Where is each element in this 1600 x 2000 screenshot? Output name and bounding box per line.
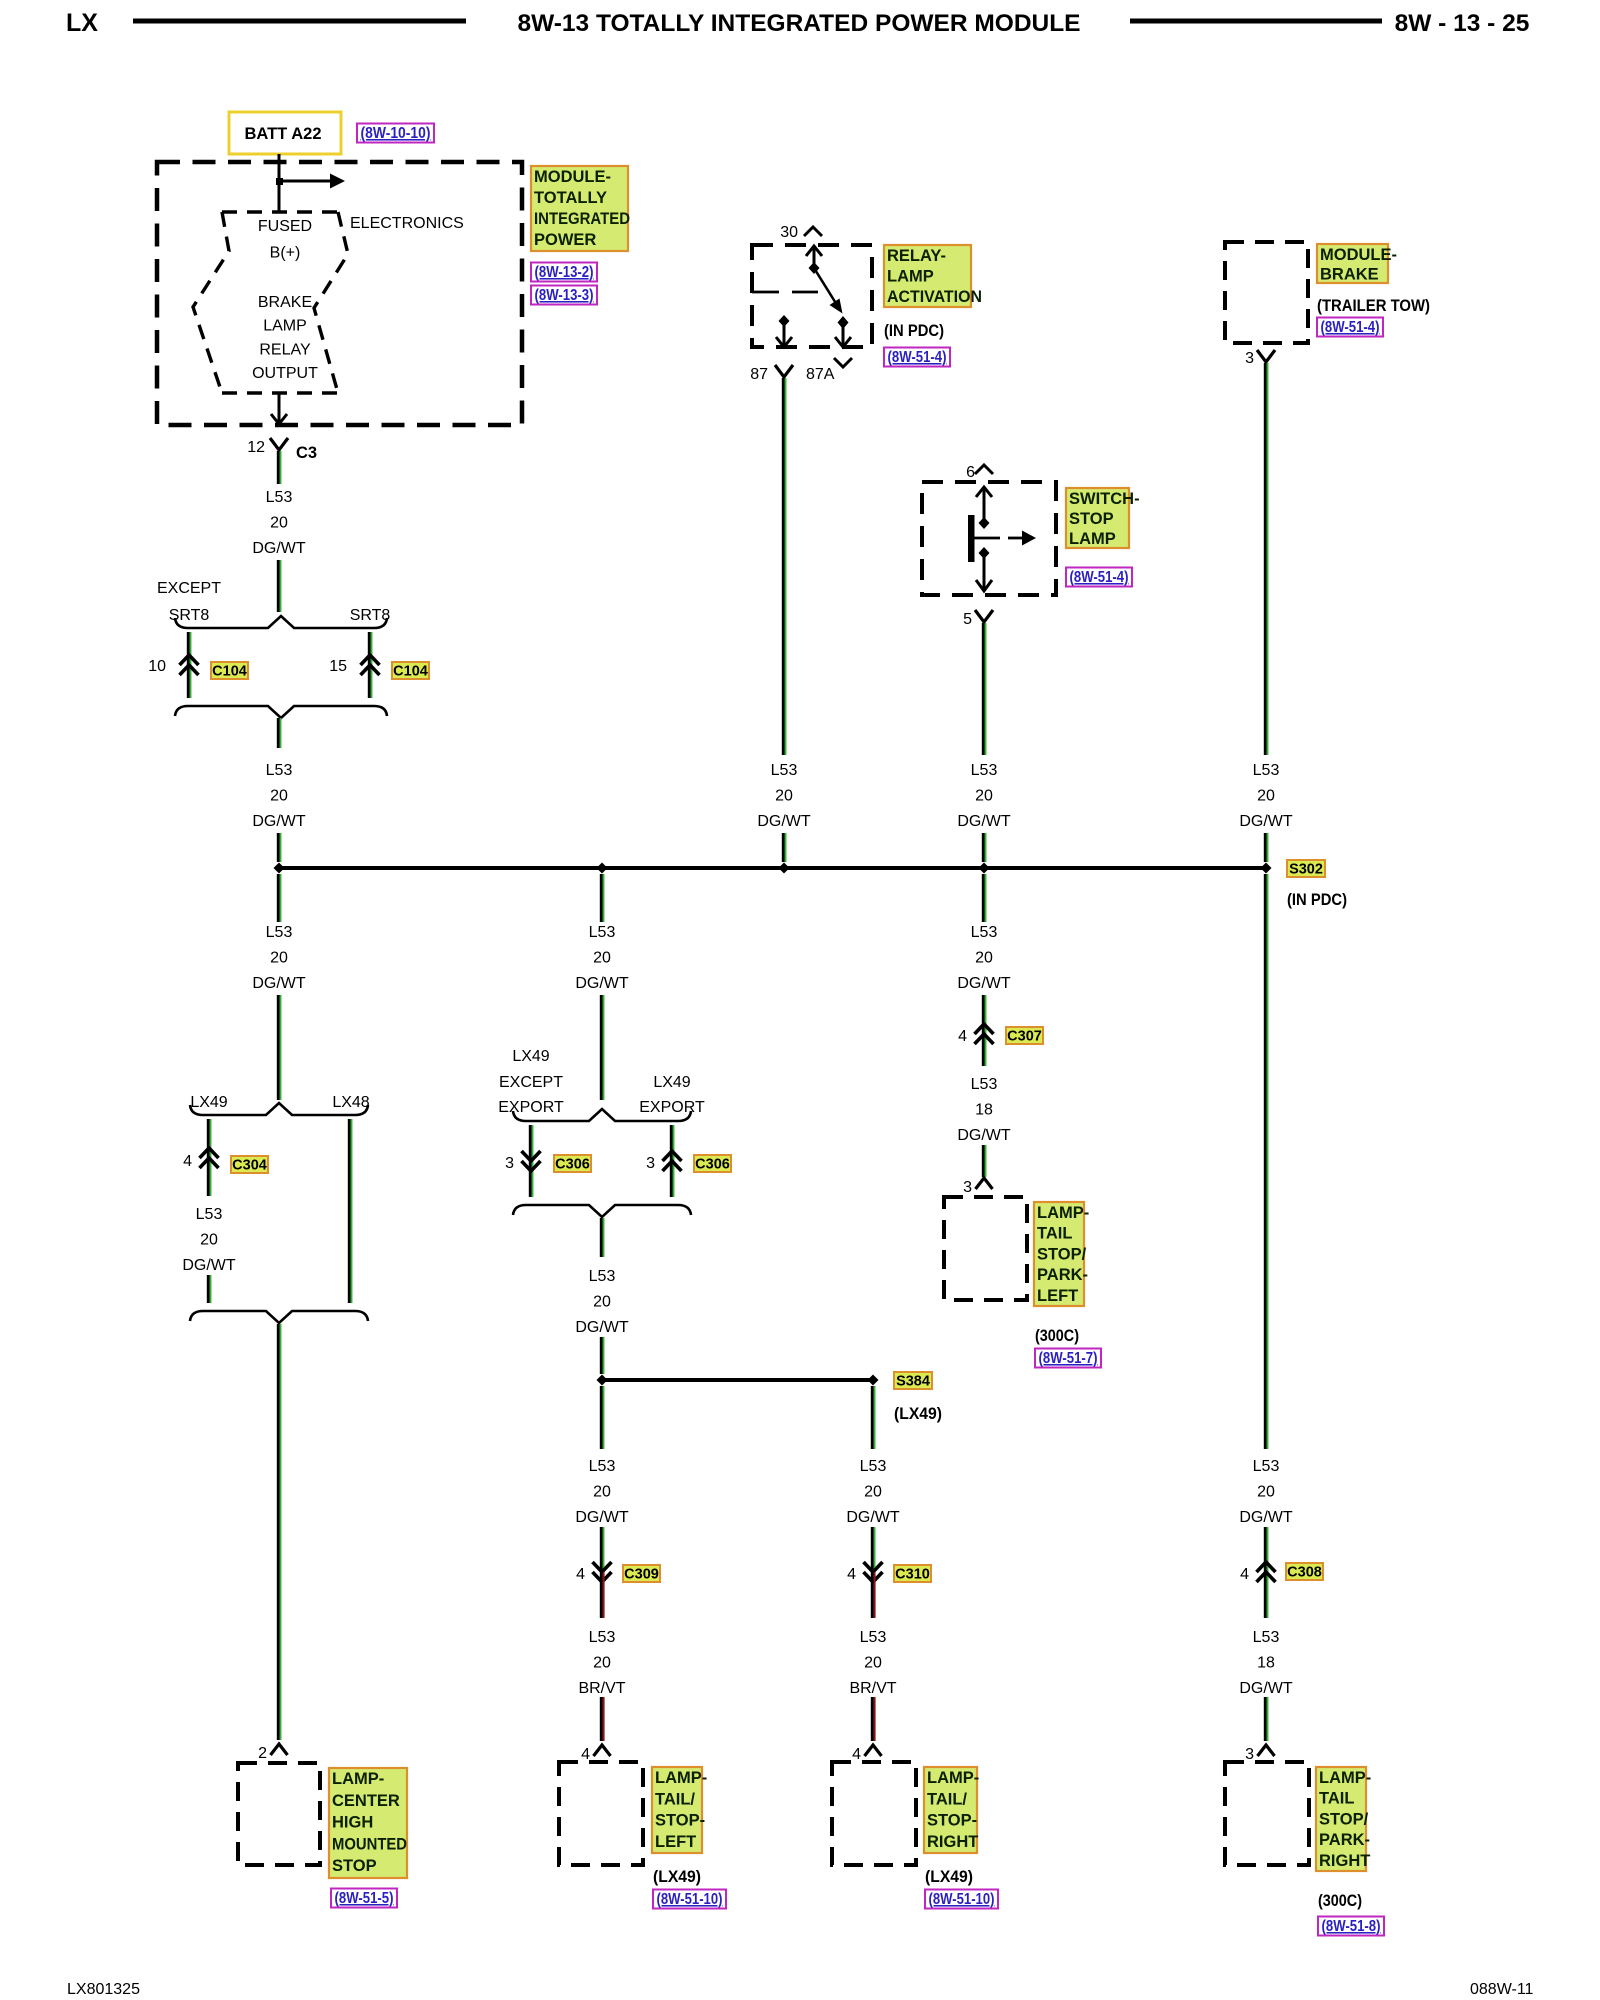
svg-text:LAMP-: LAMP-: [332, 1770, 384, 1788]
svg-text:L53: L53: [971, 1076, 998, 1093]
svg-text:OUTPUT: OUTPUT: [252, 365, 318, 382]
svg-text:L53: L53: [589, 1629, 616, 1646]
svg-text:BATT A22: BATT A22: [244, 125, 321, 143]
svg-text:(8W-51-4): (8W-51-4): [888, 349, 947, 366]
svg-text:LAMP: LAMP: [1069, 530, 1116, 548]
label L53 20 DG/WT (column B): [575, 924, 629, 992]
label L53 20 BR/VT (left): [578, 1629, 625, 1697]
svg-text:6: 6: [966, 464, 975, 481]
svg-text:SRT8: SRT8: [350, 607, 391, 624]
relay pin 30 terminal: [780, 224, 798, 241]
text FUSED B(+): [258, 218, 312, 262]
TIPM internal B(+) distribution arrow: [276, 174, 345, 189]
switch S1 STOP LAMP dashed outline: [922, 482, 1056, 595]
connector C308 pin 4 symbol: [1257, 1562, 1276, 1582]
svg-text:20: 20: [864, 1483, 882, 1500]
label MODULE-BRAKE: [1317, 244, 1397, 284]
svg-text:(IN PDC): (IN PDC): [884, 322, 944, 340]
wire L53 to center high mounted stop lamp: [278, 1324, 280, 1740]
svg-text:LAMP: LAMP: [887, 268, 934, 286]
connector C304 pin 4 symbol: [200, 1148, 219, 1168]
svg-text:(8W-51-5): (8W-51-5): [335, 1890, 394, 1907]
wire L53 into LX49/LX48 split: [278, 995, 280, 1100]
svg-text:DG/WT: DG/WT: [1239, 813, 1293, 830]
label SWITCH-STOP LAMP: [1066, 488, 1140, 548]
junction at S384 left: [597, 1375, 608, 1386]
svg-text:LAMP: LAMP: [263, 318, 307, 335]
svg-text:RELAY-: RELAY-: [887, 247, 946, 265]
label L53 20 DG/WT (above C309): [575, 1458, 629, 1526]
svg-text:TOTALLY: TOTALLY: [534, 189, 607, 207]
svg-text:CENTER: CENTER: [332, 1792, 400, 1810]
relay internal contact: common arm with up arrow: [806, 246, 822, 274]
wire L53 18 to 300C tail lamp right: [1265, 1697, 1267, 1741]
svg-text:L53: L53: [771, 762, 798, 779]
svg-text:(8W-51-7): (8W-51-7): [1039, 1350, 1098, 1367]
splice S384 bus wire: [602, 1378, 873, 1382]
module U1 TOTALLY INTEGRATED POWER MODULE dashed outline: [157, 162, 522, 425]
svg-text:DG/WT: DG/WT: [575, 975, 629, 992]
svg-text:87A: 87A: [806, 366, 835, 383]
svg-text:4: 4: [852, 1746, 861, 1763]
svg-text:2: 2: [258, 1745, 267, 1762]
svg-text:LEFT: LEFT: [1037, 1287, 1078, 1305]
label L53 20 DG/WT (above C308): [1239, 1458, 1293, 1526]
connector C306 pin 3 symbol (right, up): [663, 1151, 682, 1171]
svg-text:5: 5: [963, 611, 972, 628]
hyperlink (8W-51-4) module-brake: [1317, 318, 1383, 337]
svg-text:DG/WT: DG/WT: [252, 975, 306, 992]
wire LX48 branch (no connector): [349, 1119, 351, 1303]
svg-text:EXCEPT: EXCEPT: [157, 580, 221, 597]
connector label C304: [231, 1156, 268, 1174]
lamp DL2 TAIL/STOP-LEFT dashed outline: [559, 1762, 643, 1865]
relay internal coil dashed line: [752, 291, 818, 294]
splice label S302: [1287, 860, 1325, 878]
svg-text:8W - 13 - 25: 8W - 13 - 25: [1395, 10, 1530, 37]
relay internal normally-open contact 87 with down arrow: [776, 315, 792, 347]
svg-text:C306: C306: [555, 1157, 590, 1173]
svg-text:LX: LX: [66, 9, 98, 37]
svg-text:STOP/: STOP/: [1319, 1810, 1369, 1828]
svg-text:L53: L53: [860, 1458, 887, 1475]
splice S302 bus wire: [279, 866, 1266, 870]
svg-text:(LX49): (LX49): [653, 1868, 701, 1886]
branch merge brace (LX49/LX48): [190, 1311, 368, 1323]
label MODULE-TOTALLY INTEGRATED POWER: [531, 166, 630, 251]
svg-text:TAIL: TAIL: [1037, 1225, 1072, 1243]
svg-text:20: 20: [270, 787, 288, 804]
text EXCEPT SRT8 (left branch): [157, 580, 221, 624]
svg-text:HIGH: HIGH: [332, 1814, 373, 1832]
branch merge brace (SRT8 variants): [175, 706, 387, 718]
label L53 20 DG/WT (above C310): [846, 1458, 900, 1526]
wire L53 into C307: [983, 995, 985, 1066]
connector label C308: [1286, 1563, 1323, 1581]
wire to C104 pin 15: [369, 632, 371, 698]
svg-text:3: 3: [963, 1179, 972, 1196]
svg-text:088W-11: 088W-11: [1470, 1981, 1534, 1998]
svg-text:SWITCH-: SWITCH-: [1069, 490, 1140, 508]
connector C3 female terminal: [270, 438, 288, 450]
svg-text:MODULE-: MODULE-: [534, 168, 611, 186]
300C tail lamp left pin 3 terminal symbol: [976, 1178, 993, 1189]
page header: [66, 9, 1529, 37]
wire L53 BR/VT from C310: [872, 1572, 874, 1618]
wire L53 below SRT8 merge: [278, 718, 280, 748]
label L53 20 DG/WT (column A above S302): [252, 762, 306, 830]
TIPM relay output arrow to pin 12: [271, 393, 287, 424]
connector label C310: [894, 1565, 931, 1583]
svg-text:20: 20: [1257, 787, 1275, 804]
svg-text:20: 20: [270, 514, 288, 531]
svg-text:C307: C307: [1007, 1029, 1042, 1045]
svg-text:12: 12: [247, 439, 265, 456]
lamp pin 2 terminal: [258, 1745, 267, 1762]
wire L53 relay branch into splice S302: [783, 833, 785, 862]
switch pin 5 female terminal symbol: [975, 610, 993, 622]
svg-text:ACTIVATION: ACTIVATION: [887, 288, 982, 306]
svg-text:L53: L53: [1253, 1458, 1280, 1475]
svg-text:(IN PDC): (IN PDC): [1287, 891, 1347, 909]
branch merge brace (export variants): [513, 1205, 691, 1217]
svg-text:DG/WT: DG/WT: [957, 975, 1011, 992]
label L53 18 DG/WT (column F): [1239, 1629, 1293, 1697]
svg-text:B(+): B(+): [270, 245, 301, 262]
label L53 18 DG/WT (column D): [957, 1076, 1011, 1144]
svg-text:4: 4: [847, 1566, 856, 1583]
module-brake pin 3 terminal: [1245, 350, 1254, 367]
svg-text:(8W-13-3): (8W-13-3): [535, 287, 594, 304]
svg-text:20: 20: [593, 1654, 611, 1671]
svg-text:EXCEPT: EXCEPT: [499, 1074, 563, 1091]
svg-text:LAMP-: LAMP-: [1037, 1204, 1089, 1222]
lamp DL1 CENTER HIGH MOUNTED STOP dashed outline: [238, 1763, 320, 1865]
wire L53 below export merge: [601, 1218, 603, 1257]
svg-text:DG/WT: DG/WT: [757, 813, 811, 830]
wire L53 below S384 (left): [601, 1386, 603, 1449]
fuse BATT A22 supply box: [229, 112, 341, 154]
svg-text:DG/WT: DG/WT: [846, 1509, 900, 1526]
svg-text:L53: L53: [589, 1268, 616, 1285]
TIPM internal fused B(+) / brake lamp relay output dashed element: [193, 212, 348, 393]
wire L53 into C308: [1265, 1527, 1267, 1618]
svg-text:20: 20: [1257, 1483, 1275, 1500]
svg-text:INTEGRATED: INTEGRATED: [534, 210, 630, 228]
hyperlink (8W-13-2): [531, 263, 597, 282]
label L53 20 DG/WT (LX49 branch): [182, 1206, 236, 1274]
svg-text:BRAKE: BRAKE: [258, 294, 312, 311]
svg-text:POWER: POWER: [534, 231, 596, 249]
svg-text:STOP: STOP: [332, 1857, 377, 1875]
wire to C304 pin 4: [208, 1119, 210, 1196]
svg-text:15: 15: [329, 658, 347, 675]
svg-text:20: 20: [593, 1293, 611, 1310]
relay pin 87A male terminal symbol: [834, 358, 852, 367]
tail lamp left pin 4 terminal: [581, 1746, 590, 1763]
svg-text:DG/WT: DG/WT: [182, 1257, 236, 1274]
svg-text:(8W-10-10): (8W-10-10): [361, 125, 431, 142]
300C tail lamp right pin 3 terminal: [1245, 1746, 1254, 1763]
svg-text:DG/WT: DG/WT: [957, 813, 1011, 830]
svg-text:LAMP-: LAMP-: [1319, 1769, 1371, 1787]
svg-text:3: 3: [646, 1155, 655, 1172]
svg-text:30: 30: [780, 224, 798, 241]
svg-text:20: 20: [593, 949, 611, 966]
svg-text:LX48: LX48: [332, 1094, 369, 1111]
branch split brace (export variants): [513, 1109, 691, 1121]
svg-text:STOP-: STOP-: [927, 1812, 977, 1830]
svg-text:DG/WT: DG/WT: [575, 1319, 629, 1336]
label LAMP-TAIL STOP/PARK-LEFT: [1034, 1202, 1089, 1306]
branch split brace (LX49/LX48): [190, 1103, 368, 1115]
svg-text:RIGHT: RIGHT: [927, 1833, 978, 1851]
module-brake pin 3 female terminal symbol: [1257, 350, 1275, 362]
wire L53 into C309: [601, 1527, 603, 1572]
label LAMP-CENTER HIGH MOUNTED STOP: [329, 1768, 407, 1878]
svg-text:3: 3: [505, 1155, 514, 1172]
svg-text:(300C): (300C): [1318, 1892, 1362, 1910]
svg-text:BRAKE: BRAKE: [1320, 266, 1379, 284]
svg-text:10: 10: [148, 658, 166, 675]
junction at S302 column B: [597, 863, 608, 874]
svg-text:L53: L53: [971, 762, 998, 779]
hyperlink (8W-13-3): [531, 286, 597, 305]
svg-text:DG/WT: DG/WT: [575, 1509, 629, 1526]
connector label C307: [1006, 1027, 1043, 1045]
svg-text:(8W-51-8): (8W-51-8): [1322, 1918, 1381, 1935]
300C tail lamp right pin 3 terminal symbol: [1258, 1745, 1275, 1756]
hyperlink (8W-51-7): [1035, 1349, 1101, 1368]
wire L53 BR/VT from C309: [601, 1572, 603, 1618]
switch pin 5 terminal: [963, 611, 972, 628]
svg-text:PARK-: PARK-: [1037, 1266, 1088, 1284]
wire L53 LX49 branch to merge: [208, 1275, 210, 1303]
switch internal actuator arrow (right): [974, 531, 1036, 546]
svg-text:BR/VT: BR/VT: [578, 1680, 625, 1697]
splice S302 node: [1261, 863, 1272, 874]
svg-text:(8W-51-4): (8W-51-4): [1070, 569, 1129, 586]
wire L53 into C310: [872, 1527, 874, 1572]
splice S384 node: [868, 1375, 879, 1386]
switch pin 6 male terminal symbol: [975, 465, 993, 474]
lamp DL3 TAIL/STOP-RIGHT dashed outline: [832, 1762, 916, 1865]
junction at S302 column A: [274, 863, 285, 874]
wire to C306 pin 3 (right): [671, 1125, 673, 1197]
svg-text:(TRAILER TOW): (TRAILER TOW): [1317, 297, 1430, 315]
label RELAY-LAMP ACTIVATION: [884, 245, 982, 307]
svg-text:STOP: STOP: [1069, 510, 1114, 528]
svg-text:20: 20: [975, 787, 993, 804]
svg-text:3: 3: [1245, 350, 1254, 367]
svg-text:20: 20: [864, 1654, 882, 1671]
svg-text:(8W-51-10): (8W-51-10): [929, 1891, 995, 1908]
svg-text:C306: C306: [695, 1157, 730, 1173]
connector C104 pin 15 symbol: [361, 655, 380, 675]
connector C307 pin 4 symbol: [975, 1024, 994, 1044]
hyperlink (8W-51-8): [1318, 1917, 1384, 1936]
label L53 20 DG/WT (above C307): [957, 924, 1011, 992]
svg-text:EXPORT: EXPORT: [498, 1099, 564, 1116]
svg-text:L53: L53: [860, 1629, 887, 1646]
svg-text:TAIL/: TAIL/: [927, 1790, 967, 1808]
svg-text:L53: L53: [266, 762, 293, 779]
connector label C309: [623, 1565, 660, 1583]
svg-text:DG/WT: DG/WT: [1239, 1509, 1293, 1526]
junction at S302 switch branch: [979, 863, 990, 874]
wire BR/VT to tail lamp left: [601, 1697, 603, 1741]
label L53 20 BR/VT (right): [849, 1629, 896, 1697]
svg-text:MODULE-: MODULE-: [1320, 246, 1397, 264]
text LX49 EXCEPT EXPORT (left branch): [498, 1048, 564, 1116]
hyperlink (8W-10-10): [357, 124, 434, 143]
tail lamp right pin 4 terminal symbol: [865, 1745, 882, 1756]
wire L53 below S302 (column F): [1265, 874, 1267, 1449]
svg-text:8W-13 TOTALLY INTEGRATED POWER: 8W-13 TOTALLY INTEGRATED POWER MODULE: [517, 10, 1080, 37]
svg-text:C304: C304: [232, 1158, 267, 1174]
wire BATT A22 feed into TIPM: [278, 154, 281, 212]
svg-text:4: 4: [958, 1028, 967, 1045]
svg-text:LX49: LX49: [653, 1074, 690, 1091]
svg-text:20: 20: [200, 1231, 218, 1248]
label L53 20 DG/WT (column C): [757, 762, 811, 830]
wire L53 below S384 (right): [872, 1386, 874, 1449]
wire L53 into LX49 export split: [601, 995, 603, 1100]
connector C310 pin 4 symbol: [864, 1562, 883, 1582]
svg-text:FUSED: FUSED: [258, 218, 312, 235]
svg-text:L53: L53: [266, 924, 293, 941]
connector C3 pin 12: [247, 439, 265, 456]
switch internal contact upper arrow: [976, 487, 992, 529]
footer sheet codes: [67, 1981, 1534, 1998]
hyperlink (8W-51-10) right: [925, 1890, 998, 1909]
svg-text:C104: C104: [393, 664, 428, 680]
svg-text:TAIL/: TAIL/: [655, 1790, 695, 1808]
connector label C104 (right): [392, 662, 429, 680]
label LAMP-TAIL/STOP-RIGHT: [924, 1767, 979, 1853]
wire L53 20 DG/WT from C3: [278, 451, 280, 484]
hyperlink (8W-51-4) relay: [884, 348, 950, 367]
wire L53 into splice S302: [278, 833, 280, 862]
lamp DL4 TAIL STOP/PARK-LEFT (300C) dashed outline: [944, 1197, 1027, 1300]
svg-text:20: 20: [775, 787, 793, 804]
svg-text:LX49: LX49: [190, 1094, 227, 1111]
label L53 20 DG/WT (column A upper): [252, 489, 306, 557]
svg-text:L53: L53: [971, 924, 998, 941]
label L53 20 DG/WT (column A below S302): [252, 924, 306, 992]
connector C306 pin 3 symbol (left, down): [522, 1151, 541, 1171]
svg-text:L53: L53: [589, 924, 616, 941]
svg-text:L53: L53: [266, 489, 293, 506]
relay pin 87 female terminal symbol: [775, 365, 793, 377]
wire L53 switch branch into splice S302: [983, 833, 985, 862]
lamp CHMSL pin 2 terminal symbol: [271, 1744, 288, 1755]
hyperlink (8W-51-4) switch: [1066, 568, 1132, 587]
text LX49 EXPORT (right branch): [639, 1074, 705, 1116]
svg-text:18: 18: [1257, 1654, 1275, 1671]
svg-text:(LX49): (LX49): [925, 1868, 973, 1886]
wire L53 from switch pin 5: [983, 623, 985, 755]
relay pin 30 male terminal symbol: [804, 227, 822, 236]
label LAMP-TAIL STOP/PARK-RIGHT: [1316, 1767, 1371, 1871]
svg-text:18: 18: [975, 1101, 993, 1118]
wire to C306 pin 3 (left): [530, 1125, 532, 1197]
svg-text:DG/WT: DG/WT: [957, 1127, 1011, 1144]
tail lamp right pin 4 terminal: [852, 1746, 861, 1763]
tail lamp left pin 4 terminal symbol: [594, 1745, 611, 1756]
svg-text:DG/WT: DG/WT: [252, 540, 306, 557]
svg-text:4: 4: [576, 1566, 585, 1583]
svg-text:C3: C3: [296, 444, 317, 462]
wire BR/VT to tail lamp right: [872, 1697, 874, 1741]
relay internal contact: movable arm (double arrow diagonal): [814, 268, 851, 347]
connector label C104 (left): [211, 662, 248, 680]
branch split brace (SRT8 variants): [175, 616, 387, 628]
connector label C306 (right): [694, 1155, 731, 1173]
wire to C104 pin 10: [188, 632, 190, 698]
wire L53 below S302 (column B): [601, 874, 603, 922]
svg-text:DG/WT: DG/WT: [252, 813, 306, 830]
svg-text:4: 4: [183, 1153, 192, 1170]
wire L53 below S302 (column A): [278, 874, 280, 922]
wire L53 from relay pin 87: [783, 378, 785, 755]
svg-text:4: 4: [1240, 1566, 1249, 1583]
wire L53 into splice S384: [601, 1337, 603, 1374]
svg-text:20: 20: [270, 949, 288, 966]
label L53 20 DG/WT (column B above S384): [575, 1268, 629, 1336]
svg-text:L53: L53: [196, 1206, 223, 1223]
svg-text:(8W-13-2): (8W-13-2): [535, 264, 594, 281]
svg-text:20: 20: [975, 949, 993, 966]
svg-text:LAMP-: LAMP-: [927, 1769, 979, 1787]
hyperlink (8W-51-5): [331, 1889, 397, 1908]
wire L53 into SRT8 split: [278, 560, 280, 612]
svg-text:STOP-: STOP-: [655, 1812, 705, 1830]
svg-text:L53: L53: [1253, 762, 1280, 779]
svg-text:TAIL: TAIL: [1319, 1790, 1354, 1808]
label L53 20 DG/WT (column F above S302): [1239, 762, 1293, 830]
svg-text:EXPORT: EXPORT: [639, 1099, 705, 1116]
svg-text:4: 4: [581, 1746, 590, 1763]
wire L53 trailer-tow branch into splice S302: [1265, 833, 1267, 862]
svg-text:3: 3: [1245, 1746, 1254, 1763]
module U2 BRAKE (TRAILER TOW) dashed outline: [1225, 242, 1308, 343]
svg-text:(8W-51-10): (8W-51-10): [657, 1891, 723, 1908]
label L53 20 DG/WT (column D above S302): [957, 762, 1011, 830]
svg-text:20: 20: [593, 1483, 611, 1500]
svg-text:(8W-51-4): (8W-51-4): [1321, 319, 1380, 336]
svg-text:S302: S302: [1289, 862, 1323, 878]
relay pin 87 terminal: [750, 366, 768, 383]
svg-text:L53: L53: [589, 1458, 616, 1475]
svg-text:87: 87: [750, 366, 768, 383]
label LAMP-TAIL/STOP-LEFT: [652, 1767, 707, 1853]
svg-text:C310: C310: [895, 1567, 930, 1583]
relay pin 87A terminal: [806, 366, 835, 383]
svg-text:S384: S384: [896, 1374, 930, 1390]
connector C309 pin 4 symbol: [593, 1562, 612, 1582]
svg-text:DG/WT: DG/WT: [1239, 1680, 1293, 1697]
svg-text:ELECTRONICS: ELECTRONICS: [350, 215, 464, 232]
svg-text:C309: C309: [624, 1567, 659, 1583]
svg-text:(LX49): (LX49): [894, 1405, 942, 1423]
300C tail lamp left pin 3 terminal: [963, 1179, 972, 1196]
text BRAKE LAMP RELAY OUTPUT: [252, 294, 318, 382]
svg-text:L53: L53: [1253, 1629, 1280, 1646]
svg-text:LX49: LX49: [512, 1048, 549, 1065]
svg-text:BR/VT: BR/VT: [849, 1680, 896, 1697]
wire L53 from module-brake pin 3: [1265, 363, 1267, 755]
